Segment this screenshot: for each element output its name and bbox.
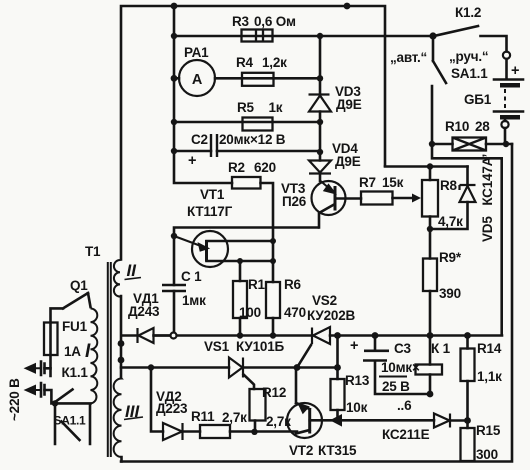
svg-text:+: + (511, 63, 519, 79)
svg-text:10мк×: 10мк× (381, 360, 420, 375)
svg-text:R1: R1 (248, 277, 266, 292)
svg-text:+: + (188, 153, 196, 169)
svg-text:GБ1: GБ1 (464, 92, 492, 107)
svg-text:I: I (85, 341, 91, 362)
svg-text:R7: R7 (359, 175, 376, 190)
svg-text:620: 620 (254, 160, 276, 175)
svg-text:КУ202В: КУ202В (307, 308, 355, 323)
svg-text:1к: 1к (269, 100, 283, 115)
svg-text:0,6 Ом: 0,6 Ом (254, 14, 296, 29)
svg-text:С 1: С 1 (181, 269, 202, 284)
svg-text:Д243: Д243 (128, 304, 160, 319)
svg-text:R2: R2 (228, 160, 245, 175)
svg-text:Д9Е: Д9Е (335, 154, 361, 169)
svg-text:К 1: К 1 (431, 341, 451, 356)
svg-text:R11: R11 (191, 409, 215, 424)
svg-text:Д9Е: Д9Е (336, 97, 362, 112)
svg-text:SA1.1: SA1.1 (451, 66, 488, 81)
svg-text:390: 390 (439, 286, 461, 301)
svg-text:20мк×12 В: 20мк×12 В (219, 132, 286, 147)
svg-text:10к: 10к (346, 400, 368, 415)
svg-text:28: 28 (475, 119, 490, 134)
svg-text:VD5 КС147А’: VD5 КС147А’ (480, 154, 495, 242)
svg-text:1,1к: 1,1к (477, 369, 502, 384)
svg-text:П26: П26 (282, 194, 307, 209)
svg-text:R5: R5 (237, 100, 255, 115)
svg-text:100: 100 (239, 305, 261, 320)
svg-text:Т1: Т1 (85, 244, 101, 259)
svg-text:КТ315: КТ315 (318, 443, 357, 458)
svg-text:R12: R12 (262, 385, 286, 400)
svg-text:R6: R6 (284, 277, 302, 292)
svg-text:15к: 15к (382, 175, 404, 190)
svg-text:R14: R14 (477, 341, 502, 356)
svg-text:+: + (350, 338, 358, 354)
svg-text:VT2: VT2 (289, 443, 313, 458)
svg-text:„авт.“: „авт.“ (390, 50, 427, 65)
svg-text:К1.1: К1.1 (62, 365, 89, 380)
svg-text:470: 470 (284, 305, 306, 320)
svg-text:VS1: VS1 (204, 339, 230, 354)
svg-text:1,2к: 1,2к (262, 55, 287, 70)
svg-text:РА1: РА1 (184, 45, 209, 60)
svg-text:R3: R3 (232, 14, 250, 29)
svg-text:1мк: 1мк (182, 293, 206, 308)
svg-text:С3: С3 (394, 341, 412, 356)
svg-text:R9*: R9* (439, 250, 462, 265)
svg-text:КУ101Б: КУ101Б (236, 339, 284, 354)
svg-text:„руч.“: „руч.“ (449, 49, 488, 64)
svg-text:VT1: VT1 (200, 187, 225, 202)
svg-text:С2: С2 (191, 132, 208, 147)
svg-text:300: 300 (476, 447, 498, 462)
svg-text:R13: R13 (345, 373, 370, 388)
svg-text:R8: R8 (440, 178, 458, 193)
svg-text:VS2: VS2 (312, 293, 337, 308)
svg-text:FU1: FU1 (62, 319, 88, 334)
svg-text:..6: ..6 (397, 398, 412, 413)
svg-text:SA1.1: SA1.1 (54, 414, 86, 428)
svg-text:~220 В: ~220 В (7, 378, 22, 421)
svg-text:Q1: Q1 (70, 278, 88, 293)
svg-text:R4: R4 (236, 55, 254, 70)
svg-text:А: А (192, 72, 203, 88)
svg-text:25 В: 25 В (382, 379, 410, 394)
svg-text:КС211Е: КС211Е (382, 427, 430, 442)
svg-text:1А: 1А (64, 344, 81, 359)
svg-text:КТ117Г: КТ117Г (187, 204, 233, 219)
svg-text:2,7к: 2,7к (222, 410, 247, 425)
svg-text:4,7к: 4,7к (438, 214, 463, 229)
svg-text:2,7к: 2,7к (266, 414, 291, 429)
svg-text:R10: R10 (445, 119, 469, 134)
svg-text:R15: R15 (476, 423, 501, 438)
svg-text:II: II (127, 261, 138, 280)
svg-text:Д223: Д223 (156, 401, 188, 416)
svg-text:К1.2: К1.2 (455, 5, 481, 20)
